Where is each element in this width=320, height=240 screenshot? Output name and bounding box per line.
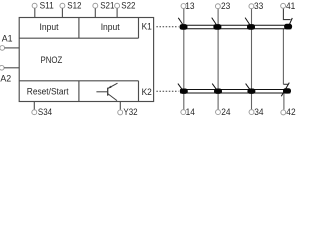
- K1 mechanical link (dotted): [156, 26, 178, 28]
- svg-text:13: 13: [185, 1, 194, 11]
- K2 mechanical link (dotted): [156, 90, 178, 92]
- terminal S11: [32, 0, 54, 17]
- svg-text:S21: S21: [100, 0, 114, 10]
- contact blade 42 (NC): [281, 83, 289, 97]
- contact blade 14: [178, 84, 183, 90]
- contact 41-42 mid wire: [282, 29, 284, 84]
- svg-text:42: 42: [286, 107, 295, 117]
- svg-text:14: 14: [186, 107, 195, 117]
- svg-text:S34: S34: [38, 107, 52, 117]
- contact blade 33: [245, 18, 250, 25]
- terminal S34: [32, 102, 52, 118]
- output/K2 divider: [138, 81, 140, 102]
- contact 42 lower wire: [283, 94, 285, 110]
- contact 41-42 lower fixed contact: [283, 83, 288, 85]
- terminal 33: [249, 1, 263, 11]
- svg-text:Reset/Start: Reset/Start: [27, 87, 69, 97]
- svg-text:33: 33: [254, 1, 263, 11]
- contact blade 24: [212, 84, 217, 90]
- svg-text:23: 23: [221, 1, 230, 11]
- svg-text:A1: A1: [2, 34, 13, 44]
- svg-text:K2: K2: [142, 87, 152, 97]
- contact 41-42 top wire: [283, 8, 290, 19]
- svg-text:S11: S11: [40, 0, 54, 10]
- svg-text:K1: K1: [142, 22, 152, 32]
- contact junction blob 24: [214, 89, 222, 94]
- contact junction blob 14: [180, 89, 188, 94]
- terminal 34: [249, 107, 263, 117]
- contact 23-24 wire: [217, 8, 219, 109]
- terminal 14: [181, 107, 195, 117]
- contact junction blob 41: [284, 24, 292, 30]
- svg-text:24: 24: [221, 107, 230, 117]
- contact bar K2 (bottom): [180, 90, 290, 94]
- transistor Q1: [96, 83, 117, 100]
- contact blade 23: [212, 18, 217, 25]
- terminal S22: [115, 0, 136, 17]
- svg-text:34: 34: [254, 107, 263, 117]
- terminal 13: [181, 1, 194, 11]
- contact junction blob 33: [247, 24, 255, 30]
- svg-text:41: 41: [286, 1, 295, 11]
- terminal S21: [93, 0, 115, 17]
- svg-text:A2: A2: [0, 73, 11, 83]
- terminal A1: [0, 34, 19, 51]
- PNOZ module outline: [19, 18, 153, 102]
- contact blade 41 (NC): [288, 18, 292, 27]
- terminal Y32: [118, 102, 138, 118]
- contact junction blob 42: [283, 88, 291, 93]
- contact blade 13: [178, 18, 182, 25]
- contact 33-34 wire: [251, 8, 253, 109]
- terminal 23: [215, 1, 230, 11]
- contact 13-14 wire: [183, 8, 185, 109]
- output row top line: [19, 80, 138, 82]
- input box divider: [78, 18, 80, 38]
- svg-text:S12: S12: [67, 0, 81, 10]
- input/K1 divider: [138, 18, 140, 38]
- terminal S12: [60, 0, 82, 17]
- svg-text:Input: Input: [40, 22, 59, 32]
- contact junction blob 34: [247, 89, 255, 94]
- terminal A2: [0, 65, 19, 83]
- svg-text:Y32: Y32: [123, 107, 137, 117]
- input row bottom line: [19, 37, 138, 39]
- contact junction blob 13: [180, 24, 188, 30]
- svg-text:S22: S22: [121, 0, 135, 10]
- transistor arrow: [108, 86, 111, 89]
- terminal 42: [281, 107, 296, 117]
- reset box divider: [78, 81, 80, 102]
- terminal 24: [216, 107, 231, 117]
- contact junction blob 23: [213, 24, 221, 30]
- contact blade 34: [246, 84, 251, 90]
- svg-text:PNOZ: PNOZ: [41, 55, 63, 65]
- terminal 41: [281, 1, 296, 11]
- svg-text:Input: Input: [101, 22, 120, 32]
- contact bar K1 (top): [180, 25, 291, 29]
